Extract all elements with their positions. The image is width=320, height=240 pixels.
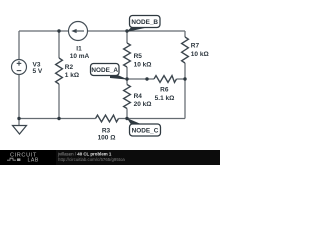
svg-text:R2: R2 [65, 64, 74, 71]
junction dot node B [125, 29, 128, 32]
junction dot R6 right [183, 77, 186, 80]
wire left branch V3 top lead [18, 31, 20, 60]
svg-text:10 mA: 10 mA [70, 53, 90, 60]
node A flag wedge [110, 72, 128, 80]
resistor R5 zigzag [124, 43, 131, 67]
resistor R4 zigzag [124, 85, 131, 109]
resistor R3 zigzag horizontal [96, 115, 119, 122]
V3 minus sign [17, 70, 22, 72]
svg-text:1 kΩ: 1 kΩ [65, 72, 79, 79]
wire bottom horizontal left of R3 [19, 118, 96, 120]
svg-text:NODE_B: NODE_B [131, 19, 158, 26]
wire middle branch R5 leads [126, 31, 128, 43]
resistor R6 zigzag horizontal [154, 76, 177, 83]
node B flag wedge [127, 28, 148, 33]
svg-text:R6: R6 [160, 86, 169, 93]
svg-text:20 kΩ: 20 kΩ [134, 101, 152, 108]
junction dot R2 bottom [57, 117, 60, 120]
wire right branch R7 top lead [184, 31, 186, 37]
resistor R7 zigzag [182, 37, 189, 63]
svg-text:5 V: 5 V [33, 68, 43, 75]
node C label box [130, 124, 161, 136]
svg-text:http://circuitlab.com/c/5765/g: http://circuitlab.com/c/5765/g95toa [58, 157, 125, 162]
node B label box [130, 16, 161, 28]
current source I1 circle with arrow [69, 22, 88, 41]
wire middle branch R4 leads [126, 79, 128, 85]
svg-text:5.1 kΩ: 5.1 kΩ [155, 95, 175, 102]
wire R6 right lead [177, 78, 186, 80]
wire left branch V3 bottom lead [18, 75, 20, 119]
junction dot ground [17, 117, 20, 120]
svg-text:I1: I1 [76, 46, 82, 53]
junction dot node A wire to R6 [145, 77, 148, 80]
svg-text:R5: R5 [134, 53, 143, 60]
wire NODE_A row to R6 [127, 78, 154, 80]
svg-text:10 kΩ: 10 kΩ [191, 51, 209, 58]
svg-text:R7: R7 [191, 43, 200, 50]
svg-text:R4: R4 [134, 93, 143, 100]
ground symbol [18, 119, 20, 126]
svg-text:100 Ω: 100 Ω [98, 135, 116, 142]
wire R2 branch bottom lead [58, 84, 60, 119]
node A label box [91, 64, 120, 76]
junction dot R2 top [57, 29, 60, 32]
svg-text:LAB: LAB [28, 157, 39, 163]
wire bottom horizontal right of R3 [119, 118, 186, 120]
wire top horizontal from V3 to R7 branch [19, 30, 185, 32]
resistor R2 zigzag [56, 58, 63, 84]
svg-text:NODE_A: NODE_A [91, 67, 118, 74]
wire right branch R7 bottom lead down to bottom wire [184, 63, 186, 119]
voltage source V3 circle [12, 60, 27, 75]
junction dot node A [125, 77, 128, 80]
svg-text:NODE_C: NODE_C [132, 128, 159, 135]
junction dot node C [125, 117, 128, 120]
svg-text:10 kΩ: 10 kΩ [134, 62, 152, 69]
bottom watermark bar [0, 150, 220, 165]
node C flag wedge [127, 118, 142, 125]
svg-text:R3: R3 [102, 127, 111, 134]
svg-text:jvillasen / 40 CL problem 1: jvillasen / 40 CL problem 1 [57, 151, 112, 156]
V3 plus sign [17, 62, 22, 64]
wire R2 branch top lead [58, 31, 60, 58]
